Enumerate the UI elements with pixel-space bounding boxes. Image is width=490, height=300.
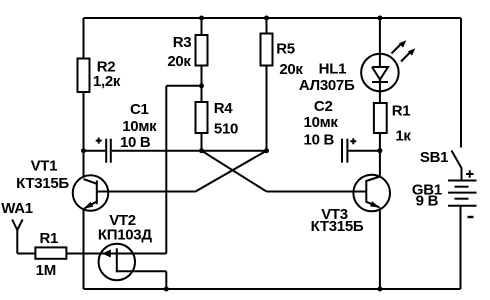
svg-text:1к: 1к: [395, 128, 411, 145]
svg-text:1М: 1М: [36, 262, 56, 279]
svg-text:АЛ307Б: АЛ307Б: [299, 77, 355, 94]
svg-text:510: 510: [214, 121, 238, 138]
svg-text:C2: C2: [314, 98, 333, 115]
svg-text:КТ315Б: КТ315Б: [311, 218, 364, 235]
svg-text:10мк: 10мк: [122, 118, 157, 135]
svg-text:R1: R1: [392, 103, 411, 120]
svg-text:20к: 20к: [167, 53, 191, 70]
svg-text:КП103Д: КП103Д: [98, 226, 152, 243]
svg-text:КТ315Б: КТ315Б: [16, 175, 69, 192]
svg-text:1,2к: 1,2к: [93, 73, 121, 90]
svg-text:10 В: 10 В: [304, 131, 335, 148]
svg-text:VT1: VT1: [31, 158, 58, 175]
svg-text:R5: R5: [276, 41, 295, 58]
svg-text:R1: R1: [40, 230, 59, 247]
svg-text:10 В: 10 В: [120, 134, 151, 151]
svg-text:WA1: WA1: [1, 200, 33, 217]
svg-text:R3: R3: [173, 34, 192, 51]
svg-text:9 В: 9 В: [416, 193, 439, 210]
svg-text:R4: R4: [214, 100, 234, 117]
svg-text:SB1: SB1: [420, 149, 448, 166]
svg-text:10мк: 10мк: [304, 114, 339, 131]
svg-text:HL1: HL1: [319, 60, 346, 77]
svg-text:20к: 20к: [279, 61, 303, 78]
svg-text:C1: C1: [130, 101, 149, 118]
